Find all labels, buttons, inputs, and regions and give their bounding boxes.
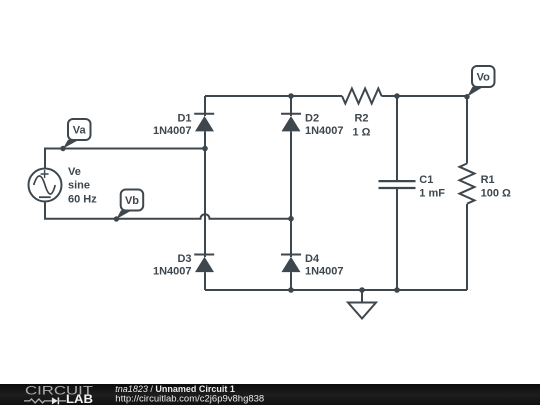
- footer bar: [0, 384, 540, 405]
- wire: C1 branch top: [396, 96, 398, 181]
- svg-text:1N4007: 1N4007: [153, 266, 192, 278]
- label D1: "D1 1N4007": [153, 113, 192, 137]
- wire: bottom rail: [205, 289, 467, 291]
- svg-text:Vo: Vo: [477, 72, 491, 84]
- svg-text:LAB: LAB: [66, 394, 93, 405]
- svg-text:R1: R1: [481, 174, 495, 186]
- resistor R2: [342, 89, 382, 104]
- junction: top rail to C1 branch: [394, 93, 400, 99]
- wire: right branch between D2 and D4: [290, 131, 292, 257]
- junction: bottom rail to C1 branch: [394, 287, 400, 293]
- svg-text:100 Ω: 100 Ω: [481, 188, 511, 200]
- ground: [348, 290, 376, 319]
- svg-text:D4: D4: [305, 253, 320, 265]
- label R1: "R1 100 Ω": [481, 174, 511, 200]
- svg-text:Ve: Ve: [68, 166, 81, 178]
- label Ve: value "Ve sine 60 Hz": [68, 166, 97, 205]
- label R2: "R2 1 Ω": [353, 113, 371, 139]
- svg-text:R2: R2: [354, 113, 368, 125]
- junction: bottom rail to D4 branch: [288, 287, 294, 293]
- junction: bottom rail to ground: [359, 287, 365, 293]
- wire: right branch above D2: [290, 96, 292, 116]
- svg-text:C1: C1: [419, 174, 433, 186]
- svg-text:Vb: Vb: [125, 195, 139, 207]
- diode D3: [194, 255, 214, 273]
- diode D1: [194, 114, 214, 132]
- node flag Va: [60, 119, 90, 151]
- svg-text:1N4007: 1N4007: [305, 125, 344, 137]
- svg-text:1N4007: 1N4007: [153, 125, 192, 137]
- diode D4: [281, 255, 301, 273]
- label D2: "D2 1N4007": [305, 113, 344, 137]
- svg-text:D2: D2: [305, 113, 319, 125]
- wire: source top to bridge left branch (node Va): [45, 149, 205, 169]
- wire: source bottom to Vb run (with hop over left branch): [45, 202, 291, 219]
- svg-text:1N4007: 1N4007: [305, 266, 344, 278]
- junction: Va wire to left branch: [202, 146, 208, 152]
- voltage source Ve: [29, 169, 62, 202]
- junction: top rail to D2 branch: [288, 93, 294, 99]
- junction: Vb wire to right branch: [288, 216, 294, 222]
- diode D2: [281, 114, 301, 132]
- wire: right branch below D4: [290, 272, 292, 290]
- svg-text:60 Hz: 60 Hz: [68, 194, 97, 206]
- svg-text:sine: sine: [68, 180, 90, 192]
- node flag Vb: [114, 190, 143, 222]
- wire: left branch above D1: [204, 96, 206, 116]
- wire: left branch between D1 and D3: [204, 131, 206, 257]
- node flag Vo: [464, 66, 494, 99]
- label C1: "C1 1 mF": [419, 174, 445, 200]
- resistor R1: [460, 164, 475, 204]
- svg-text:D1: D1: [177, 113, 191, 125]
- capacitor C1: [379, 181, 416, 188]
- wire: left branch below D3: [204, 272, 206, 290]
- svg-text:D3: D3: [177, 253, 191, 265]
- svg-text:Va: Va: [73, 125, 87, 137]
- svg-text:1 Ω: 1 Ω: [353, 126, 371, 138]
- label D4: "D4 1N4007": [305, 253, 344, 277]
- CircuitLab logo: wire-resistor-diode doodle: [24, 397, 66, 404]
- wire: R1 branch top: [466, 96, 468, 164]
- wire: top rail from bridge to R2: [205, 95, 342, 97]
- wire: R2 to node Vo: [382, 95, 467, 97]
- label D3: "D3 1N4007": [153, 253, 192, 277]
- wire: R1 branch bottom: [466, 204, 468, 290]
- svg-text:http://circuitlab.com/c2j6p9v8: http://circuitlab.com/c2j6p9v8hg838: [115, 393, 264, 404]
- svg-text:1 mF: 1 mF: [419, 188, 445, 200]
- wire: C1 branch bottom: [396, 188, 398, 290]
